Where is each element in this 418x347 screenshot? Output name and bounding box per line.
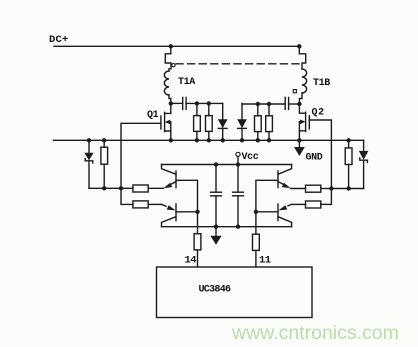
diode right zener ZD2 [359,140,369,188]
node Vcc terminal [236,152,259,165]
node taps on left top wire [195,101,199,105]
diode left freewheel D (to rail) [218,103,228,140]
capacitor left gate cap plates [171,97,223,109]
transformer T1A [164,46,195,103]
capacitor right gate cap plates [285,97,299,109]
ground center arrow [210,227,221,245]
svg-text:DC+: DC+ [49,34,69,46]
node drain node Q2 (junction dot) [297,102,301,106]
wire left bases junction [176,180,198,233]
svg-text:www.cntronics.com: www.cntronics.com [231,322,399,344]
transistor left upper NPN [162,165,177,189]
diode left zener ZD1 [84,140,93,188]
resistor to pin 11 [253,234,271,267]
svg-text:T1A: T1A [178,77,195,88]
wire Q2 gate lead [309,120,331,189]
transistor right upper NPN [278,165,292,189]
node junction T1B top on rail [297,44,301,48]
node rail junction dots [87,138,351,142]
resistor right base R2 (horizontal) [292,201,332,208]
wire Q1 gate lead [121,123,161,188]
resistor right base R1 (horizontal) [291,185,332,192]
wire left gate vertical continues to R2 [121,188,133,204]
resistor left gate pulldown [101,140,108,188]
wire Vcc collector rail [162,164,292,166]
resistor left base R1 (horizontal) [121,185,164,192]
wire lower source rail [54,139,364,141]
node junction T1A top on rail [169,44,173,48]
resistor to pin 14 [185,234,201,267]
resistor left gate R (vertical 2) [206,103,213,140]
svg-text:GND: GND [306,153,323,164]
wire left gate node bottom wire [89,187,121,189]
resistor left base R2 (horizontal) [133,201,162,208]
resistor left gate R (vertical 1) [194,103,201,140]
transformer T1B [293,46,330,103]
node taps on right top wire [256,102,260,106]
svg-text:T1B: T1B [313,78,330,89]
op-amp U1 UC3846 controller box [157,267,313,318]
capacitor center C2 [233,165,244,227]
wire right bases junction [256,180,278,234]
transistor left lower PNP [162,204,198,227]
node drain node Q1 (junction dot) [169,101,173,105]
node dots bottom rail [214,225,218,229]
wire right gate node [331,188,363,190]
node dots left gate node [102,186,106,190]
diode right freewheel D (to rail) [237,103,247,140]
transistor Q1 (N-MOSFET) [147,103,171,140]
wire bottom emitter rail [162,226,292,228]
ground GND symbol at Q2 source [294,140,323,163]
capacitor center C1 [211,165,222,227]
resistor right gate R (vertical 3) [255,104,262,140]
resistor right gate pulldown [345,140,352,188]
svg-text:14: 14 [185,255,197,267]
wire dashed coupling line between T1A and T1B [176,63,299,65]
wire top DC+ rail [54,45,300,47]
svg-text:Q2: Q2 [312,108,325,119]
svg-text:Vcc: Vcc [242,152,259,163]
transistor right lower PNP [256,204,292,227]
node dots on Vcc rail [214,162,218,166]
resistor right gate R (vertical 4) [266,104,273,140]
svg-text:11: 11 [259,255,271,267]
svg-text:Q1: Q1 [147,110,159,121]
svg-text:UC3846: UC3846 [199,285,232,296]
wire right top wire [242,103,285,105]
transistor Q2 (N-MOSFET, mirrored) [299,104,324,140]
